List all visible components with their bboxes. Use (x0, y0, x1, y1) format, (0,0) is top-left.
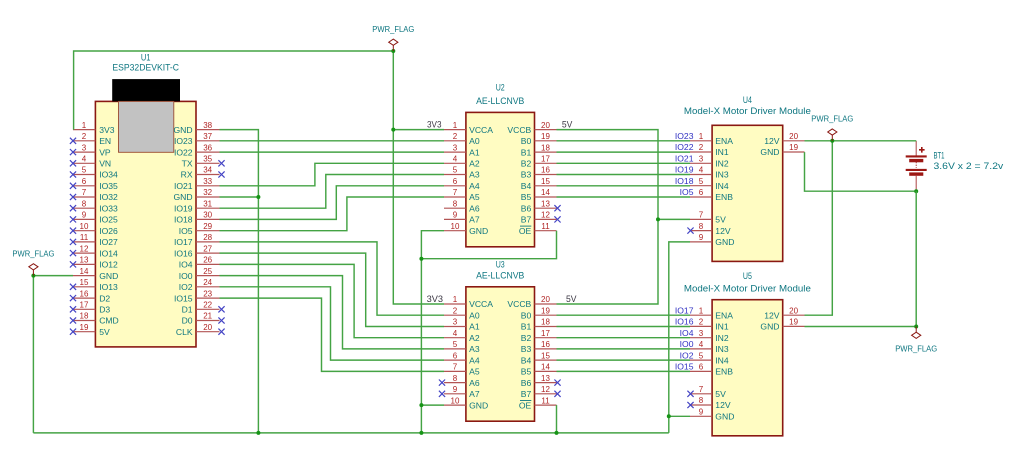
svg-text:B6: B6 (521, 203, 532, 213)
svg-text:12: 12 (80, 244, 89, 253)
junction 5V at U4 pin7 (656, 217, 660, 221)
wire GND: U1 pin32 to GND drop (220, 196, 259, 198)
U1 left pin names (99, 125, 119, 337)
svg-text:A0: A0 (469, 310, 480, 320)
svg-text:3: 3 (699, 329, 704, 338)
svg-text:30: 30 (203, 211, 212, 220)
svg-text:10: 10 (451, 396, 460, 405)
svg-text:5: 5 (453, 340, 458, 349)
svg-text:GND: GND (469, 400, 488, 410)
svg-text:B5: B5 (521, 367, 532, 377)
U5 right pin names 12V,GND (760, 310, 779, 331)
svg-text:19: 19 (789, 143, 798, 152)
svg-text:A4: A4 (469, 355, 480, 365)
U3 no-connect X marks A6,A7 (439, 380, 445, 397)
wire GND: U2 OE pin11 drop (421, 231, 556, 259)
wire U2 B2 to U4 input row 3 (557, 162, 691, 164)
svg-text:IO27: IO27 (99, 237, 118, 247)
svg-text:Model-X Motor Driver Module: Model-X Motor Driver Module (684, 106, 811, 116)
svg-text:8: 8 (699, 396, 704, 405)
junction GND at OE link (419, 257, 423, 261)
svg-text:B4: B4 (521, 355, 532, 365)
svg-text:IO15: IO15 (174, 293, 193, 303)
svg-text:3V3: 3V3 (427, 294, 443, 304)
svg-text:8: 8 (453, 199, 458, 208)
svg-text:IO12: IO12 (99, 260, 118, 270)
svg-text:4: 4 (699, 166, 704, 175)
svg-text:6: 6 (699, 188, 704, 197)
U3 left pin numbers (451, 295, 460, 405)
svg-text:21: 21 (203, 312, 212, 321)
svg-text:VN: VN (99, 159, 111, 169)
motor driver U4 Model-X Motor Driver Module (712, 125, 783, 261)
U3 left pins 1-10 (444, 304, 466, 405)
svg-text:IO18: IO18 (675, 176, 694, 186)
svg-text:1: 1 (82, 121, 87, 130)
svg-text:ENB: ENB (715, 367, 733, 377)
svg-text:U5: U5 (743, 271, 752, 281)
wire IO18: U1 pin30 to U2 A4 (220, 186, 445, 220)
svg-text:PWR_FLAG: PWR_FLAG (372, 24, 414, 34)
wire 3V3: U1 pin1 up and across top (74, 51, 394, 130)
svg-text:5V: 5V (715, 389, 726, 399)
svg-text:IO13: IO13 (99, 282, 118, 292)
svg-text:5V: 5V (566, 294, 577, 304)
svg-text:IO18: IO18 (174, 215, 193, 225)
U1 left pins 1-19 (73, 130, 95, 332)
svg-text:6: 6 (453, 351, 458, 360)
svg-text:12: 12 (541, 211, 550, 220)
svg-text:IN3: IN3 (715, 344, 729, 354)
svg-text:34: 34 (203, 166, 212, 175)
wire IO5: U1 pin29 to U2 A5 (220, 197, 445, 231)
U4 right pin numbers 20,19 (789, 132, 798, 152)
motor driver U5 Model-X Motor Driver Module (712, 300, 783, 436)
svg-text:22: 22 (203, 301, 212, 310)
svg-text:IN3: IN3 (715, 170, 729, 180)
svg-text:VP: VP (99, 147, 111, 157)
junction GND at U1 pin32 (256, 195, 260, 199)
U2 right pin numbers (541, 121, 550, 231)
wire U3 B0 to U5 input row 1 (557, 314, 691, 316)
svg-text:16: 16 (541, 340, 550, 349)
svg-text:IO33: IO33 (99, 203, 118, 213)
svg-text:IO14: IO14 (99, 248, 118, 258)
svg-text:11: 11 (541, 222, 550, 231)
svg-text:11: 11 (541, 396, 550, 405)
svg-text:8: 8 (699, 222, 704, 231)
level converter U2 AE-LLCNVB (466, 112, 535, 246)
svg-text:1: 1 (453, 121, 458, 130)
svg-text:IO15: IO15 (675, 362, 694, 372)
svg-text:ESP32DEVKIT-C: ESP32DEVKIT-C (112, 63, 179, 73)
svg-text:BT1: BT1 (934, 150, 945, 160)
svg-text:GND: GND (760, 147, 779, 157)
wire GND: bottom rail (33, 432, 668, 434)
svg-text:5: 5 (699, 177, 704, 186)
svg-text:IO4: IO4 (179, 260, 193, 270)
wire IO19: U1 pin31 to U2 A3 (220, 175, 445, 209)
svg-text:4: 4 (82, 155, 87, 164)
svg-text:OE: OE (519, 400, 532, 410)
svg-text:15: 15 (541, 177, 550, 186)
U5 right pins 20,19 (783, 315, 805, 326)
svg-text:11: 11 (80, 233, 89, 242)
svg-text:8: 8 (453, 374, 458, 383)
svg-text:B3: B3 (521, 344, 532, 354)
wire GND: U1 pin38 to GND drop (220, 130, 259, 433)
svg-text:7: 7 (699, 385, 704, 394)
svg-text:14: 14 (541, 363, 550, 372)
svg-text:B7: B7 (521, 215, 532, 225)
svg-text:A3: A3 (469, 344, 480, 354)
svg-text:IO5: IO5 (179, 226, 193, 236)
svg-text:VCCA: VCCA (469, 125, 493, 135)
svg-text:A2: A2 (469, 159, 480, 169)
svg-text:7: 7 (82, 188, 87, 197)
wire IO22: U1 pin36 to U2 A1 (220, 151, 445, 153)
svg-text:20: 20 (789, 306, 798, 315)
svg-text:OE: OE (519, 226, 532, 236)
U3 no-connect X marks B6,B7 (554, 380, 560, 397)
svg-text:D3: D3 (99, 305, 110, 315)
svg-text:12V: 12V (715, 226, 731, 236)
svg-text:B3: B3 (521, 170, 532, 180)
svg-text:7: 7 (699, 211, 704, 220)
svg-text:IO26: IO26 (99, 226, 118, 236)
U2 right pins 20-11 (535, 130, 557, 231)
svg-text:B0: B0 (521, 136, 532, 146)
svg-text:13: 13 (80, 256, 89, 265)
svg-text:IO17: IO17 (675, 305, 694, 315)
junction 3V3 at PWR_FLAG (391, 49, 395, 53)
battery BT1 (906, 141, 927, 191)
svg-text:IO2: IO2 (179, 282, 193, 292)
U1 left pin numbers 1-19 (80, 121, 89, 332)
junction 3V3 at U2 VCCA row (391, 128, 395, 132)
wire GND: U2 pin10 drop to rail (421, 231, 444, 433)
svg-text:AE-LLCNVB: AE-LLCNVB (476, 96, 524, 106)
junction GND at PWR_FLAG bottom-left (31, 274, 35, 278)
svg-text:IO25: IO25 (99, 215, 118, 225)
U2 left pin numbers (451, 121, 460, 231)
U4 right pins 20,19 (783, 141, 805, 152)
wire GND: U1 pin14 to PWR_FLAG corner (33, 276, 73, 433)
wire 3V3: branch to U2 VCCA pin1 (393, 129, 444, 131)
svg-text:9: 9 (82, 211, 87, 220)
svg-text:7: 7 (453, 363, 458, 372)
U4 right pin names 12V,GND (760, 136, 779, 157)
U4 input net labels (675, 131, 694, 197)
svg-text:1: 1 (699, 306, 704, 315)
svg-text:IN2: IN2 (715, 333, 729, 343)
svg-text:16: 16 (80, 289, 89, 298)
svg-text:A3: A3 (469, 170, 480, 180)
wire IO15: U1 pin23 to U3 A5 (220, 298, 445, 371)
svg-text:2: 2 (453, 132, 458, 141)
svg-text:6: 6 (699, 363, 704, 372)
wire BATT-: battery to U5 GND19 row (915, 191, 917, 326)
wire 12V: drop to U5 pin20 (805, 141, 833, 315)
U4 left pins 1-9 (690, 141, 712, 242)
wire U2 B5 to U4 input row 6 (557, 196, 691, 198)
wire U3 B4 to U5 input row 5 (557, 359, 691, 361)
power flag PWR_FLAG top (372, 24, 414, 51)
junction BATT- at battery bottom (914, 189, 918, 193)
U1 right pin names (173, 125, 192, 337)
U5 left pins 1-9 (690, 315, 712, 416)
svg-text:15: 15 (541, 351, 550, 360)
wire GND: U5 pin9 link (669, 415, 690, 417)
svg-text:GND: GND (715, 412, 734, 422)
svg-text:B6: B6 (521, 378, 532, 388)
svg-text:20: 20 (541, 295, 550, 304)
junction GND at U5 pin9 (667, 414, 671, 418)
power flag PWR_FLAG bottom-right (895, 327, 937, 354)
U1 no-connect X marks left pins 2-13,15-19 (70, 138, 76, 335)
svg-text:U2: U2 (496, 82, 505, 92)
svg-text:3: 3 (82, 143, 87, 152)
svg-text:IO34: IO34 (99, 170, 118, 180)
svg-text:3V3: 3V3 (427, 119, 442, 129)
svg-text:A6: A6 (469, 378, 480, 388)
svg-text:D0: D0 (182, 316, 193, 326)
U4 no-connect X mark 12V pin8 (687, 228, 693, 234)
svg-text:14: 14 (541, 188, 550, 197)
svg-text:EN: EN (99, 136, 111, 146)
svg-text:IO16: IO16 (174, 248, 193, 258)
svg-text:IN1: IN1 (715, 147, 729, 157)
svg-text:D2: D2 (99, 293, 110, 303)
svg-text:2: 2 (699, 318, 704, 327)
svg-text:IO19: IO19 (174, 203, 193, 213)
svg-text:IO23: IO23 (675, 131, 694, 141)
svg-text:12V: 12V (764, 136, 780, 146)
svg-text:A0: A0 (469, 136, 480, 146)
svg-text:IO22: IO22 (174, 147, 193, 157)
svg-text:IO19: IO19 (675, 165, 694, 175)
svg-text:IO17: IO17 (174, 237, 193, 247)
svg-text:12: 12 (541, 385, 550, 394)
svg-text:19: 19 (541, 132, 550, 141)
svg-text:IN4: IN4 (715, 181, 729, 191)
svg-text:15: 15 (80, 278, 89, 287)
svg-text:A5: A5 (469, 192, 480, 202)
svg-text:4: 4 (453, 155, 458, 164)
svg-text:VCCB: VCCB (507, 125, 531, 135)
svg-text:IO5: IO5 (680, 187, 694, 197)
svg-text:12V: 12V (764, 310, 780, 320)
svg-text:A2: A2 (469, 333, 480, 343)
svg-text:GND: GND (469, 226, 488, 236)
svg-text:IO21: IO21 (174, 181, 193, 191)
svg-text:2: 2 (453, 306, 458, 315)
svg-text:7: 7 (453, 188, 458, 197)
svg-text:VCCA: VCCA (469, 299, 493, 309)
wire GND: U3 pin10 link (421, 404, 444, 406)
svg-text:IO2: IO2 (680, 350, 694, 360)
junction GND rail at x=258 (256, 431, 260, 435)
svg-text:VCCB: VCCB (507, 299, 531, 309)
svg-text:B2: B2 (521, 159, 532, 169)
svg-text:ENA: ENA (715, 310, 733, 320)
U2 no-connect X marks B6,B7 (554, 205, 560, 222)
svg-text:2: 2 (82, 132, 87, 141)
svg-text:GND: GND (99, 271, 118, 281)
power flag PWR_FLAG right (811, 114, 853, 141)
svg-text:A6: A6 (469, 203, 480, 213)
wire IO0: U1 pin25 to U3 A3 (220, 276, 445, 349)
svg-text:9: 9 (453, 385, 458, 394)
wire U3 B2 to U5 input row 3 (557, 337, 691, 339)
svg-text:CLK: CLK (176, 327, 193, 337)
svg-text:5V: 5V (99, 327, 110, 337)
U4 left pin numbers (699, 132, 704, 242)
junction GND rail at x=556 (555, 431, 559, 435)
U5 left pin names (715, 310, 734, 421)
svg-text:20: 20 (541, 121, 550, 130)
svg-text:9: 9 (699, 408, 704, 417)
svg-text:35: 35 (203, 155, 212, 164)
wire 12V: U4 pin20 to battery + (805, 140, 917, 142)
wire 5V: branch to U4 5V pin7 (658, 218, 690, 220)
svg-text:6: 6 (453, 177, 458, 186)
level converter U3 AE-LLCNVB (466, 287, 535, 421)
svg-text:A4: A4 (469, 181, 480, 191)
wire U2 B0 to U4 input row 1 (557, 140, 691, 142)
wire U3 B3 to U5 input row 4 (557, 348, 691, 350)
svg-text:IO0: IO0 (680, 339, 694, 349)
wire GND: U4 pin9 to vertical drop (669, 242, 690, 433)
svg-text:AE-LLCNVB: AE-LLCNVB (476, 271, 524, 281)
U3 left pin names (469, 299, 493, 410)
U1 antenna block (112, 79, 180, 101)
svg-text:3.6V x 2 = 7.2v: 3.6V x 2 = 7.2v (934, 161, 1004, 171)
svg-text:20: 20 (203, 323, 212, 332)
svg-text:IO35: IO35 (99, 181, 118, 191)
U2 left pins 1-10 (444, 130, 466, 231)
svg-text:B7: B7 (521, 389, 532, 399)
svg-text:A5: A5 (469, 367, 480, 377)
U3 right pin names (507, 299, 531, 410)
svg-text:24: 24 (203, 278, 212, 287)
svg-text:4: 4 (453, 329, 458, 338)
wire IO2: U1 pin24 to U3 A4 (220, 287, 445, 360)
svg-text:32: 32 (203, 188, 212, 197)
svg-text:27: 27 (203, 244, 212, 253)
svg-text:19: 19 (80, 323, 89, 332)
U2 left pin names (469, 125, 493, 236)
svg-text:28: 28 (203, 233, 212, 242)
svg-text:B5: B5 (521, 192, 532, 202)
svg-text:PWR_FLAG: PWR_FLAG (895, 344, 937, 354)
svg-text:9: 9 (699, 233, 704, 242)
svg-text:TX: TX (182, 159, 193, 169)
svg-text:A7: A7 (469, 215, 480, 225)
svg-text:IO23: IO23 (174, 136, 193, 146)
svg-text:IO4: IO4 (680, 328, 694, 338)
svg-text:18: 18 (80, 312, 89, 321)
svg-text:1: 1 (453, 295, 458, 304)
svg-text:19: 19 (541, 306, 550, 315)
svg-text:5: 5 (699, 351, 704, 360)
svg-text:B2: B2 (521, 333, 532, 343)
svg-text:4: 4 (699, 340, 704, 349)
wire 3V3: vertical to U2/U3 VCCA (393, 51, 444, 304)
wire IO16: U1 pin27 to U3 A1 (220, 253, 445, 326)
svg-text:GND: GND (715, 237, 734, 247)
svg-text:ENA: ENA (715, 136, 733, 146)
wire U3 B5 to U5 input row 6 (557, 370, 691, 372)
U1 RF shield (119, 101, 174, 152)
svg-text:GND: GND (173, 192, 192, 202)
svg-text:A1: A1 (469, 322, 480, 332)
svg-text:6: 6 (82, 177, 87, 186)
svg-text:2: 2 (699, 143, 704, 152)
svg-text:23: 23 (203, 289, 212, 298)
svg-text:26: 26 (203, 256, 212, 265)
svg-text:D1: D1 (182, 305, 193, 315)
svg-text:B0: B0 (521, 310, 532, 320)
svg-text:IO21: IO21 (675, 154, 694, 164)
U5 left pin numbers (699, 306, 704, 416)
svg-text:IO32: IO32 (99, 192, 118, 202)
svg-text:13: 13 (541, 374, 550, 383)
U3 right pin numbers (541, 295, 550, 405)
svg-text:ENB: ENB (715, 192, 733, 202)
svg-text:10: 10 (80, 222, 89, 231)
svg-text:IN4: IN4 (715, 355, 729, 365)
svg-text:17: 17 (541, 155, 550, 164)
svg-text:5V: 5V (562, 119, 573, 129)
svg-text:9: 9 (453, 211, 458, 220)
svg-text:3: 3 (453, 143, 458, 152)
svg-text:RX: RX (181, 170, 193, 180)
wire IO17: U1 pin28 to U3 A0 (220, 242, 445, 315)
svg-text:IN1: IN1 (715, 322, 729, 332)
svg-text:IN2: IN2 (715, 159, 729, 169)
svg-text:PWR_FLAG: PWR_FLAG (811, 114, 853, 124)
svg-text:17: 17 (541, 329, 550, 338)
U1 right pin numbers 38-20 (203, 121, 212, 332)
wire IO23: U1 pin37 to U2 A0 (220, 140, 445, 142)
svg-text:36: 36 (203, 143, 212, 152)
svg-text:IO0: IO0 (179, 271, 193, 281)
svg-text:B1: B1 (521, 147, 532, 157)
U1 no-connect X marks right pins 35,34,22,21,20 (218, 160, 224, 335)
svg-text:18: 18 (541, 318, 550, 327)
power flag PWR_FLAG bottom-left (12, 249, 54, 276)
wire BATT-: U4 pin19 down to battery - (805, 152, 917, 191)
svg-text:IO22: IO22 (675, 142, 694, 152)
svg-text:33: 33 (203, 177, 212, 186)
U3 right pins 20-11 (535, 304, 557, 405)
wire U2 B1 to U4 input row 2 (557, 151, 691, 153)
svg-text:14: 14 (80, 267, 89, 276)
svg-text:31: 31 (203, 199, 212, 208)
wire U3 B1 to U5 input row 2 (557, 326, 691, 328)
junction GND at U3 pin10 (419, 403, 423, 407)
svg-text:13: 13 (541, 199, 550, 208)
svg-text:20: 20 (789, 132, 798, 141)
svg-text:3: 3 (699, 155, 704, 164)
wire 5V: U2 VCCB to U3 VCCB via right drop (557, 130, 659, 304)
svg-text:18: 18 (541, 143, 550, 152)
U5 right pin numbers 20,19 (789, 306, 798, 326)
svg-text:B4: B4 (521, 181, 532, 191)
wire BATT-: to U5 pin19 (805, 326, 917, 328)
svg-text:GND: GND (760, 322, 779, 332)
